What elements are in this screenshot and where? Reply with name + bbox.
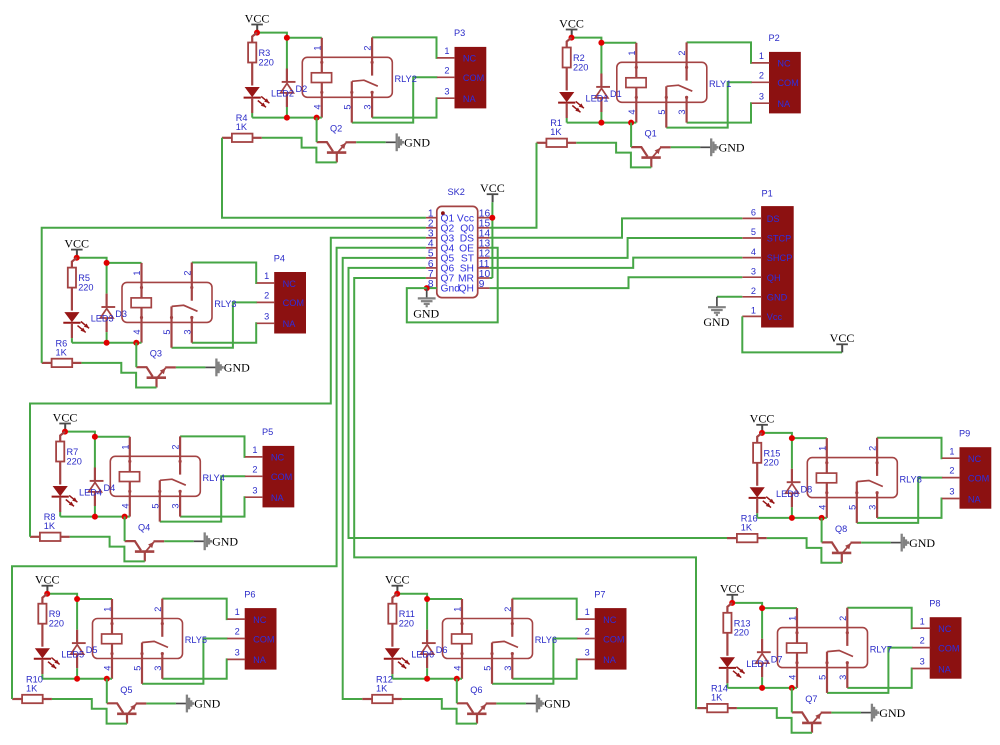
wire LED LED8 cathode to bottom rail (756, 513, 758, 518)
svg-text:4: 4 (312, 104, 322, 109)
label LED LED5 name (61, 650, 84, 660)
svg-text:P7: P7 (594, 589, 605, 599)
power VCC symbol (P8 block) (720, 582, 745, 603)
svg-text:3: 3 (171, 503, 181, 508)
svg-text:NA: NA (938, 664, 952, 674)
junction diode D6 cathode node (424, 596, 430, 602)
power VCC symbol (P1 pin 1) (830, 331, 855, 352)
LED LED1 (558, 92, 584, 118)
LED LED2 (244, 87, 270, 113)
svg-text:1: 1 (817, 446, 827, 451)
power VCC symbol (P6 block) (35, 573, 60, 594)
svg-text:Q5: Q5 (120, 685, 132, 695)
wire diode D5 cathode (76, 599, 78, 630)
svg-text:220: 220 (764, 458, 779, 468)
label connector P2 name (769, 33, 780, 43)
svg-text:SHCP: SHCP (767, 253, 793, 263)
relay RLY4 common pin 2 (179, 436, 182, 474)
junction diode D4 anode node (92, 514, 98, 520)
connector P1 pin 3 QH (742, 266, 780, 282)
svg-text:DS: DS (767, 214, 780, 224)
relay RLY8 coil pin 4 (825, 483, 828, 518)
ground GND symbol (Q5 emitter) (176, 695, 221, 713)
label R4 name (236, 113, 248, 123)
label R12 value 1K (376, 683, 388, 693)
junction SK2 pin 16 Vcc node (489, 215, 495, 221)
svg-text:4: 4 (453, 666, 463, 671)
resistor R7 (56, 432, 65, 485)
wire relay pin 3 to P8 NA (847, 669, 912, 688)
diode D5 (71, 630, 86, 669)
relay RLY6 coil (452, 634, 472, 644)
SK2 pin 13 OE (459, 239, 490, 255)
connector P8 (930, 618, 961, 679)
junction diode D6 anode node (424, 676, 430, 682)
wire diode D5 anode to bottom rail (76, 668, 78, 679)
label R9 value 220 (49, 619, 64, 629)
power VCC symbol (P9 block) (750, 412, 775, 433)
wire relay pin 3 to P9 NA (877, 499, 942, 518)
svg-text:4: 4 (751, 247, 756, 257)
wire VCC rail to relay pin 1 (47, 594, 112, 599)
wire emitter of Q3 to ground (176, 366, 206, 368)
svg-text:NA: NA (603, 655, 617, 665)
wire collector of Q3 (135, 343, 137, 368)
label R8 value 1K (44, 521, 56, 531)
ground GND symbol (Q3 emitter) (205, 359, 250, 377)
svg-text:220: 220 (78, 282, 93, 292)
svg-text:2: 2 (444, 65, 449, 75)
SK2 pin 7 Q7 (426, 269, 455, 285)
relay RLY6 contact pin 5 (490, 643, 493, 684)
svg-text:GND: GND (413, 306, 439, 320)
connector P5 pin 1 NC (245, 445, 285, 463)
label R14 name (711, 684, 728, 694)
svg-text:P1: P1 (762, 188, 773, 198)
SK2 pin 4 Q4 (426, 239, 455, 255)
junction VCC node (44, 591, 50, 597)
relay RLY7 coil pin 4 (795, 653, 798, 688)
relay RLY6 body (443, 619, 533, 659)
label R7 name (67, 447, 79, 457)
svg-text:NA: NA (463, 94, 477, 104)
connector P5 (263, 446, 294, 507)
svg-text:RLY2: RLY2 (395, 74, 417, 84)
wire relay pin 2 to P7 NC (512, 599, 577, 620)
svg-text:5: 5 (483, 666, 493, 671)
wire net SHCP (SK2 pin 11 to P1 pin 4) (490, 258, 743, 268)
wire net STCP (SK2 pin 12 to P1 pin 5) (490, 238, 743, 258)
resistor R12 (362, 695, 402, 703)
wire diode D8 cathode (791, 438, 793, 469)
svg-text:NA: NA (253, 655, 267, 665)
junction collector node (819, 515, 825, 521)
relay RLY7 switch armature (827, 651, 853, 657)
ground GND symbol (SK2 pin 8) (413, 288, 439, 320)
label diode D3 name (115, 309, 127, 319)
label R14 value 1K (711, 693, 723, 703)
junction diode D3 anode node (104, 340, 110, 346)
svg-text:LED6: LED6 (411, 650, 434, 660)
label connector P3 name (454, 28, 465, 38)
connector P1 (762, 207, 794, 327)
relay RLY4 coil (119, 472, 139, 482)
label R3 name (259, 48, 271, 58)
svg-text:220: 220 (67, 456, 82, 466)
label R11 name (399, 609, 415, 619)
label transistor Q8 name (835, 524, 847, 534)
svg-text:2: 2 (920, 636, 925, 646)
transistor Q6 (457, 703, 497, 723)
svg-text:2: 2 (949, 466, 954, 476)
svg-text:GND: GND (194, 697, 220, 711)
svg-text:1K: 1K (376, 683, 388, 693)
SK2 pin 11 SH (460, 259, 490, 275)
relay RLY8 contact pin 3 (876, 491, 879, 518)
svg-text:NC: NC (603, 615, 617, 625)
svg-text:GND: GND (909, 536, 935, 550)
wire VCC rail to relay pin 1 (77, 258, 142, 263)
svg-text:3: 3 (153, 666, 163, 671)
svg-text:P3: P3 (454, 28, 465, 38)
svg-text:4: 4 (103, 666, 113, 671)
label R4 value 1K (236, 122, 248, 132)
svg-text:GND: GND (212, 535, 238, 549)
relay RLY2 coil pin 1 (320, 38, 323, 73)
wire net QH (SK2 pin 9 to P1 pin 3) (490, 277, 743, 288)
label connector P8 name (929, 599, 940, 609)
label diode D1 name (610, 89, 622, 99)
label connector P7 name (594, 589, 605, 599)
wire diode D7 cathode (761, 608, 763, 639)
svg-text:220: 220 (734, 628, 749, 638)
svg-text:NC: NC (271, 453, 285, 463)
svg-text:1K: 1K (56, 347, 68, 357)
label diode D4 name (104, 483, 116, 493)
svg-text:Q7: Q7 (805, 694, 817, 704)
wire diode D3 anode to bottom rail (106, 332, 108, 343)
svg-text:220: 220 (49, 619, 64, 629)
wire relay pin 2 to P4 NC (192, 263, 257, 284)
power VCC symbol (P3 block) (245, 11, 270, 32)
svg-text:1: 1 (252, 445, 257, 455)
label R6 value 1K (56, 347, 68, 357)
svg-text:1: 1 (453, 607, 463, 612)
junction SK2 pin 8 Gnd node (424, 285, 430, 291)
relay RLY1 contact pin 5 (665, 86, 668, 127)
label R7 value 220 (67, 456, 82, 466)
junction collector node (628, 120, 634, 126)
svg-text:3: 3 (363, 104, 373, 109)
wire net Q5 (SK2 pin 5 to R12) (343, 258, 426, 699)
label R12 name (376, 674, 393, 684)
junction VCC node (254, 30, 260, 36)
SK2 pin 3 Q3 (426, 229, 455, 245)
svg-text:D5: D5 (86, 645, 98, 655)
connector P8 pin 3 NA (912, 657, 952, 675)
label R15 name (764, 448, 781, 458)
wire base of Q6 (402, 699, 477, 724)
connector P5 pin 3 NA (245, 485, 285, 503)
wire net Q4 (SK2 pin 4 to R10) (12, 248, 426, 699)
svg-text:Q1: Q1 (645, 129, 657, 139)
LED LED5 (34, 648, 60, 674)
connector P7 pin 2 COM (577, 627, 624, 645)
label diode D7 name (771, 654, 783, 664)
relay RLY6 common pin 2 (511, 599, 514, 637)
svg-text:D2: D2 (296, 84, 308, 94)
junction VCC node (759, 430, 765, 436)
label connector P9 name (959, 429, 970, 439)
ground GND symbol (Q2 emitter) (386, 133, 431, 151)
SK2 pin 6 Q6 (426, 259, 455, 275)
svg-text:5: 5 (847, 505, 857, 510)
junction VCC node (729, 600, 735, 606)
svg-text:3: 3 (252, 485, 257, 495)
label relay RLY5 name (185, 635, 207, 645)
svg-text:9: 9 (479, 279, 485, 290)
svg-text:1: 1 (627, 50, 637, 55)
label transistor Q7 name (805, 694, 817, 704)
label relay RLY3 name (214, 299, 236, 309)
svg-text:COM: COM (283, 298, 304, 308)
connector P4 pin 2 COM (257, 291, 304, 309)
svg-text:2: 2 (759, 70, 764, 80)
svg-text:P4: P4 (274, 253, 285, 263)
wire diode D6 anode to bottom rail (426, 668, 428, 679)
svg-text:2: 2 (363, 45, 373, 50)
svg-text:5: 5 (162, 330, 172, 335)
svg-text:220: 220 (259, 57, 274, 67)
relay RLY1 contact pin 3 (685, 96, 688, 123)
junction collector node (104, 676, 110, 682)
junction diode D7 anode node (759, 685, 765, 691)
label transistor Q1 name (645, 129, 657, 139)
wire VCC rail to relay pin 1 (572, 38, 637, 43)
wire relay pin 2 to P2 NC (687, 42, 752, 63)
wire P1 pin 2 to ground (717, 296, 742, 298)
transistor Q3 (136, 367, 176, 387)
power VCC symbol (P2 block) (559, 16, 584, 37)
wire collector of Q6 (456, 679, 458, 704)
connector P2 (770, 52, 801, 113)
wire LED LED7 cathode to bottom rail (726, 683, 728, 688)
svg-text:LED4: LED4 (79, 488, 102, 498)
svg-text:1: 1 (585, 607, 590, 617)
svg-text:VCC: VCC (245, 11, 270, 25)
svg-text:3: 3 (949, 487, 954, 497)
svg-text:1K: 1K (711, 693, 723, 703)
svg-text:Vcc: Vcc (767, 312, 783, 322)
svg-text:4: 4 (120, 503, 130, 508)
wire emitter of Q2 to ground (356, 141, 386, 143)
svg-text:4: 4 (788, 675, 798, 680)
label R16 name (741, 514, 758, 524)
label relay RLY7 name (870, 644, 892, 654)
power VCC symbol (P7 block) (385, 573, 410, 594)
label connector P4 name (274, 253, 285, 263)
relay RLY3 coil pin 4 (140, 308, 143, 343)
svg-text:2: 2 (751, 286, 756, 296)
relay RLY4 coil pin 1 (128, 437, 131, 472)
label R5 value 220 (78, 282, 93, 292)
relay RLY4 body (110, 456, 200, 496)
svg-text:2: 2 (503, 607, 513, 612)
relay RLY2 pin numbers (312, 45, 372, 109)
wire net Q3 (SK2 pin 3 to R8) (30, 238, 426, 537)
svg-text:6: 6 (751, 208, 756, 218)
resistor R8 (30, 533, 70, 541)
relay RLY3 coil pin 1 (140, 263, 143, 298)
svg-text:3: 3 (920, 657, 925, 667)
svg-text:P2: P2 (769, 33, 780, 43)
relay RLY6 contact pin 3 (511, 652, 514, 679)
relay RLY2 coil pin 4 (320, 83, 323, 118)
svg-text:LED1: LED1 (586, 94, 609, 104)
SK2 pin 9 QH (459, 279, 490, 295)
resistor R1 (537, 139, 577, 147)
relay RLY5 coil pin 4 (110, 644, 113, 679)
junction diode D2 cathode node (284, 35, 290, 41)
connector P3 pin 2 COM (437, 65, 484, 83)
junction diode D1 anode node (598, 120, 604, 126)
wire VCC rail to relay pin 1 (65, 432, 130, 437)
relay RLY3 coil (131, 298, 151, 308)
resistor R13 (723, 603, 732, 656)
svg-text:1K: 1K (236, 122, 248, 132)
label R5 name (78, 273, 90, 283)
label connector P5 name (262, 427, 273, 437)
relay RLY2 switch armature (352, 80, 378, 86)
resistor R5 (68, 258, 77, 311)
svg-text:1K: 1K (44, 521, 56, 531)
relay RLY4 contact pin 3 (179, 490, 182, 517)
relay RLY2 contact pin 3 (371, 91, 374, 118)
label LED LED4 name (79, 488, 102, 498)
svg-text:RLY1: RLY1 (709, 79, 731, 89)
relay RLY7 coil pin 1 (795, 608, 798, 643)
label relay RLY8 name (900, 474, 922, 484)
svg-text:Gnd: Gnd (441, 284, 461, 295)
wire net Q0 (SK2 pin 15 to R1) (490, 143, 537, 228)
label R1 value 1K (550, 127, 562, 137)
wire diode D6 cathode (426, 599, 428, 630)
relay RLY3 pin numbers (132, 271, 192, 335)
svg-text:COM: COM (938, 643, 959, 653)
svg-text:P6: P6 (244, 589, 255, 599)
junction diode D2 anode node (284, 115, 290, 121)
svg-text:1K: 1K (26, 683, 38, 693)
label connector P1 name (762, 188, 773, 198)
junction diode D4 cathode node (92, 434, 98, 440)
diode D1 (595, 74, 610, 113)
wire LED LED1 cathode to bottom rail (566, 118, 568, 123)
wire relay pin 2 to P9 NC (877, 438, 942, 459)
wire net OE tied to ground loop (407, 248, 498, 323)
svg-text:RLY6: RLY6 (535, 635, 557, 645)
connector P6 pin 2 COM (227, 627, 274, 645)
junction VCC node (74, 255, 80, 261)
svg-text:STCP: STCP (767, 234, 792, 244)
junction VCC node (569, 35, 575, 41)
svg-text:Q3: Q3 (150, 349, 162, 359)
label SK2 name (448, 187, 465, 197)
svg-text:RLY5: RLY5 (185, 635, 207, 645)
junction diode D8 anode node (789, 515, 795, 521)
svg-text:5: 5 (751, 227, 756, 237)
wire VCC rail to relay pin 1 (397, 594, 462, 599)
label transistor Q4 name (138, 523, 150, 533)
wire LED LED2 cathode to bottom rail (251, 113, 253, 118)
svg-text:2: 2 (153, 607, 163, 612)
svg-text:1: 1 (759, 51, 764, 61)
relay RLY8 body (807, 458, 897, 498)
svg-text:Q8: Q8 (835, 524, 847, 534)
diode D6 (421, 630, 436, 669)
wire bottom rail (LED/diode/coil) (567, 122, 637, 124)
label R6 name (56, 338, 68, 348)
resistor R14 (697, 704, 737, 712)
connector P2 pin 2 COM (752, 70, 799, 88)
relay RLY8 pin numbers (817, 446, 877, 510)
wire relay pin 5 to P4 COM (172, 302, 258, 347)
wire relay pin 5 to P5 COM (160, 476, 246, 521)
svg-text:NC: NC (463, 54, 477, 64)
svg-text:NC: NC (283, 279, 297, 289)
wire emitter of Q8 to ground (861, 542, 891, 544)
connector P6 pin 3 NA (227, 648, 267, 666)
connector P7 (595, 609, 626, 670)
relay RLY5 contact pin 5 (140, 643, 143, 684)
svg-text:D1: D1 (610, 89, 622, 99)
wire LED LED3 cathode to bottom rail (71, 338, 73, 343)
svg-text:LED5: LED5 (61, 650, 84, 660)
svg-text:1: 1 (132, 271, 142, 276)
junction diode D7 cathode node (759, 605, 765, 611)
wire base of Q7 (737, 708, 812, 733)
svg-text:4: 4 (132, 330, 142, 335)
svg-text:5: 5 (133, 666, 143, 671)
svg-text:5: 5 (818, 675, 828, 680)
resistor R6 (42, 359, 82, 367)
svg-text:NC: NC (938, 624, 952, 634)
svg-text:VCC: VCC (720, 582, 745, 596)
label R9 name (49, 609, 61, 619)
resistor R3 (248, 33, 257, 86)
svg-text:3: 3 (585, 648, 590, 658)
connector P9 pin 3 NA (942, 487, 982, 505)
label relay RLY1 name (709, 79, 731, 89)
wire bottom rail (LED/diode/coil) (727, 687, 797, 689)
svg-text:1: 1 (920, 616, 925, 626)
wire P1 pin 1 to VCC (742, 316, 842, 352)
svg-text:3: 3 (235, 648, 240, 658)
relay RLY2 contact pin 5 (350, 81, 353, 122)
wire VCC rail to relay pin 1 (732, 603, 797, 608)
label R1 name (550, 118, 562, 128)
IC SK2 shift register body (437, 206, 478, 297)
wire net Q6 (SK2 pin 6 to R16) (349, 268, 728, 538)
svg-text:1: 1 (264, 271, 269, 281)
connector P4 pin 3 NA (257, 311, 297, 329)
relay RLY7 pin numbers (788, 616, 848, 680)
wire collector of Q4 (124, 517, 126, 542)
wire emitter of Q6 to ground (496, 703, 526, 705)
svg-text:3: 3 (868, 505, 878, 510)
svg-text:NC: NC (253, 615, 267, 625)
resistor R9 (38, 594, 47, 647)
svg-text:3: 3 (264, 311, 269, 321)
